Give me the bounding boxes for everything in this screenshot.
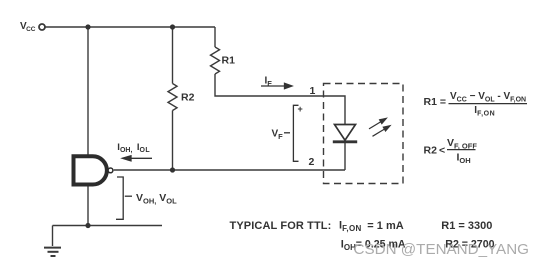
svg-text:R1: R1 xyxy=(222,55,236,67)
svg-text:TYPICAL FOR TTL:: TYPICAL FOR TTL: xyxy=(230,220,332,232)
svg-text:1: 1 xyxy=(310,85,316,97)
svg-text:R1 = 3300: R1 = 3300 xyxy=(441,220,492,232)
svg-text:R2 <: R2 < xyxy=(424,144,446,156)
svg-text:CSDN @TENAND_YANG: CSDN @TENAND_YANG xyxy=(354,241,529,258)
svg-text:R1 =: R1 = xyxy=(424,96,446,108)
svg-text:= 1 mA: = 1 mA xyxy=(367,220,403,232)
svg-text:2: 2 xyxy=(309,156,315,168)
svg-text:R2: R2 xyxy=(181,92,195,104)
svg-text:+: + xyxy=(298,104,303,114)
